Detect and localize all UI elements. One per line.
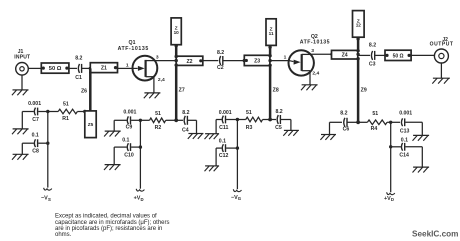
svg-text:R4: R4 xyxy=(371,126,378,132)
svg-text:D: D xyxy=(140,197,143,202)
transmission line Z2 xyxy=(176,56,203,65)
svg-text:C14: C14 xyxy=(399,152,409,158)
svg-text:Z6: Z6 xyxy=(81,88,87,94)
resistor 50 ohm (input termination box) xyxy=(41,63,69,73)
node (Z9 foot) xyxy=(356,120,360,124)
transmission line Z6 (shunt stub) xyxy=(81,68,90,111)
wire C11 to ground xyxy=(216,120,222,134)
resistor R1 51 ohm xyxy=(48,101,87,122)
wire 50-ohm box to J2 xyxy=(411,54,434,56)
node (rail top, stage 2) xyxy=(389,121,392,124)
svg-text:C4: C4 xyxy=(182,128,189,134)
ground (below J1) xyxy=(12,75,29,95)
node (Z7 foot) xyxy=(174,118,178,122)
wire C12 to ground xyxy=(216,148,222,166)
ground (Q2 source) xyxy=(301,85,318,90)
ground (C13) xyxy=(413,135,430,140)
svg-text:8.2: 8.2 xyxy=(217,50,224,56)
wire ground to C6 xyxy=(330,122,343,134)
svg-text:C11: C11 xyxy=(219,125,228,131)
svg-text:C1: C1 xyxy=(75,75,82,81)
svg-text:50 Ω: 50 Ω xyxy=(393,53,404,59)
svg-text:C12: C12 xyxy=(219,153,229,159)
transmission line Z3 xyxy=(244,55,270,65)
terminal -VG xyxy=(231,189,242,201)
svg-text:0.1: 0.1 xyxy=(219,139,226,145)
wire Z12 stub xyxy=(356,37,359,50)
transmission line Z7 (shunt stub) xyxy=(176,65,185,120)
svg-text:0.001: 0.001 xyxy=(123,110,136,116)
note text xyxy=(55,214,170,239)
ground (Q1 source) xyxy=(144,93,161,98)
wire Z4 to C3 xyxy=(358,54,370,56)
capacitor C11 xyxy=(219,110,232,131)
svg-text:Z3: Z3 xyxy=(254,58,260,64)
svg-text:Z4: Z4 xyxy=(342,53,348,59)
wire Z3 to Q2 gate xyxy=(270,60,289,62)
svg-text:OUTPUT: OUTPUT xyxy=(430,41,454,47)
resistor 50 ohm (output termination box) xyxy=(385,50,411,60)
wire C14 to ground xyxy=(405,147,422,167)
resistor R3 51 ohm xyxy=(237,110,270,131)
transmission line Z11 (stub box) xyxy=(266,19,276,46)
node (Q2 gate junction) xyxy=(268,54,271,67)
capacitor C8 xyxy=(32,133,39,155)
ground (C7) xyxy=(12,129,29,134)
capacitor C9 xyxy=(123,110,136,131)
capacitor C3 xyxy=(369,42,376,67)
transmission line Z8 (shunt stub) xyxy=(270,66,279,120)
wire rail to C14 xyxy=(389,145,401,148)
svg-text:C2: C2 xyxy=(217,65,224,71)
node (Q1 drain junction) xyxy=(175,55,178,67)
svg-text:51: 51 xyxy=(246,110,252,116)
capacitor C2 xyxy=(217,50,224,71)
ground (C10) xyxy=(104,165,121,170)
wire C3 to 50-ohm box xyxy=(375,54,385,56)
capacitor C7 xyxy=(28,101,41,123)
svg-text:11: 11 xyxy=(269,31,274,36)
capacitor C5 xyxy=(270,109,283,131)
wire bias rail -VG xyxy=(236,120,238,190)
svg-text:Z7: Z7 xyxy=(179,87,185,93)
svg-text:0.1: 0.1 xyxy=(122,138,129,144)
wire C8 to rail xyxy=(38,142,49,145)
svg-text:3: 3 xyxy=(311,48,314,54)
wire C1 to node xyxy=(82,67,91,69)
svg-text:Z9: Z9 xyxy=(361,87,367,93)
svg-text:S: S xyxy=(48,197,51,202)
terminal +VD (stage 2) xyxy=(384,192,395,202)
wire C12 to rail xyxy=(226,146,239,149)
wire C2 to Z3 xyxy=(223,59,246,62)
svg-text:0.001: 0.001 xyxy=(399,111,412,117)
svg-text:8.2: 8.2 xyxy=(275,109,282,115)
capacitor C14 xyxy=(399,137,409,158)
ground (C8) xyxy=(12,154,29,159)
svg-text:10: 10 xyxy=(174,30,180,35)
svg-text:SeekIC.com: SeekIC.com xyxy=(412,230,458,239)
svg-text:ATF-10135: ATF-10135 xyxy=(118,46,149,52)
capacitor C12 xyxy=(219,139,229,160)
transmission line Z1 xyxy=(90,63,117,73)
svg-text:0.001: 0.001 xyxy=(28,101,41,107)
svg-text:12: 12 xyxy=(356,23,362,28)
svg-text:51: 51 xyxy=(155,111,161,117)
transmission line Z10 (stub box) xyxy=(171,18,181,45)
svg-text:Z1: Z1 xyxy=(101,66,107,72)
svg-text:51: 51 xyxy=(372,111,378,117)
transmission line Z12 (stub box) xyxy=(353,11,365,38)
svg-text:R1: R1 xyxy=(62,116,69,122)
pin 1 label (Q2 gate) xyxy=(284,55,287,61)
svg-text:C3: C3 xyxy=(369,61,376,67)
connector J2 (output jack) xyxy=(430,37,454,63)
ground (below J2) xyxy=(432,63,450,84)
svg-text:8.2: 8.2 xyxy=(340,110,347,116)
wire C7 to ground xyxy=(22,112,34,129)
wire Q1 drain to Z2 node xyxy=(155,60,176,62)
wire C13 to ground xyxy=(405,122,422,135)
ground (C11) xyxy=(205,134,220,139)
wire C11 to rail xyxy=(226,118,239,121)
transistor Q2 ATF-10135 xyxy=(289,34,331,85)
wire J1 to 50-ohm box xyxy=(28,67,41,69)
svg-text:D: D xyxy=(391,197,394,202)
wire C7 to rail xyxy=(38,110,49,113)
ground (C5) xyxy=(283,130,299,135)
node (Q2 drain junction) xyxy=(356,49,359,60)
wire C9 to ground xyxy=(114,120,127,131)
pin 1 label (Q1 gate) xyxy=(126,63,129,69)
terminal +VD (stage 1) xyxy=(134,189,145,202)
svg-text:2,4: 2,4 xyxy=(158,77,165,83)
svg-text:R2: R2 xyxy=(155,125,162,131)
svg-text:ATF-10135: ATF-10135 xyxy=(300,39,330,45)
wire bias rail -VS xyxy=(47,112,49,188)
wire Q2 drain to Z4 xyxy=(311,53,333,56)
svg-text:C7: C7 xyxy=(32,117,39,123)
wire C4 to ground xyxy=(188,120,197,133)
ground (C12) xyxy=(205,166,220,171)
node (Z8 foot) xyxy=(268,118,272,122)
transistor Q1 ATF-10135 xyxy=(118,40,165,93)
capacitor C4 xyxy=(176,110,189,134)
node (C1/Z1/Z6 junction) xyxy=(89,67,92,74)
svg-text:INPUT: INPUT xyxy=(14,55,30,61)
wire bias rail +VD (stage 1) xyxy=(139,120,141,188)
ground (C6) xyxy=(320,135,336,140)
ground (C14) xyxy=(413,167,430,172)
svg-text:Z8: Z8 xyxy=(273,87,279,93)
svg-text:Z5: Z5 xyxy=(88,122,94,127)
svg-text:C8: C8 xyxy=(32,149,39,155)
svg-text:C10: C10 xyxy=(124,152,134,158)
wire C8 to ground xyxy=(22,143,34,154)
capacitor C10 xyxy=(122,138,134,159)
svg-text:R3: R3 xyxy=(246,125,253,131)
svg-text:0.1: 0.1 xyxy=(401,137,408,143)
resistor R4 51 ohm xyxy=(358,111,391,132)
svg-text:C9: C9 xyxy=(126,125,133,131)
wire bias rail +VD (stage 2) xyxy=(390,122,392,192)
wire C5 to ground xyxy=(281,120,291,131)
capacitor C6 xyxy=(340,110,349,132)
svg-text:C13: C13 xyxy=(400,128,410,134)
wire Z11 stub xyxy=(268,45,271,55)
svg-text:C6: C6 xyxy=(343,126,350,132)
wire Z1 to Q1 gate xyxy=(118,67,133,69)
terminal -VS xyxy=(41,188,52,202)
transmission line Z5 (box) xyxy=(85,111,96,138)
wire C6 to Z9 node xyxy=(348,121,359,123)
svg-text:0.001: 0.001 xyxy=(219,110,232,116)
ground (C9) xyxy=(104,131,121,136)
wire Z2 to C2 xyxy=(203,60,218,62)
svg-text:8.2: 8.2 xyxy=(369,42,376,48)
svg-text:2,4: 2,4 xyxy=(312,71,319,77)
wire C9 to rail xyxy=(131,119,142,122)
svg-text:0.1: 0.1 xyxy=(32,133,39,139)
resistor R2 51 ohm xyxy=(140,111,176,131)
svg-text:3: 3 xyxy=(156,55,159,61)
svg-text:1: 1 xyxy=(284,55,287,61)
wire C10 to rail xyxy=(131,145,142,148)
ground (C4) xyxy=(188,134,204,139)
watermark SeekIC.com xyxy=(412,230,458,239)
wire C10 to ground xyxy=(114,147,127,165)
wire Z10 stub xyxy=(175,44,178,56)
transmission line Z9 (shunt stub) xyxy=(358,59,367,122)
svg-text:8.2: 8.2 xyxy=(182,110,189,116)
svg-text:Z2: Z2 xyxy=(186,59,192,65)
svg-text:51: 51 xyxy=(63,101,69,107)
transmission line Z4 xyxy=(332,50,358,59)
capacitor C13 xyxy=(391,111,413,135)
wire 50-ohm box to C1 xyxy=(69,67,77,69)
svg-text:50 Ω: 50 Ω xyxy=(49,66,62,72)
svg-text:1: 1 xyxy=(126,63,129,69)
svg-text:C5: C5 xyxy=(275,125,282,131)
capacitor C1 xyxy=(75,56,82,81)
svg-text:8.2: 8.2 xyxy=(75,56,82,62)
connector J1 (input jack) xyxy=(14,49,30,75)
